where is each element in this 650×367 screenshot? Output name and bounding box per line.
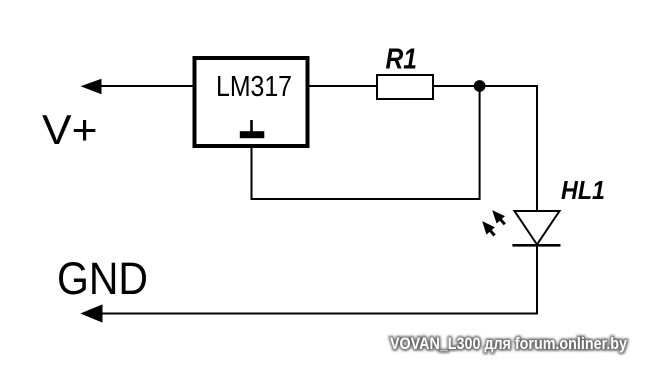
- svg-text:V+: V+: [42, 106, 98, 153]
- wire corner down to LED: [536, 85, 538, 212]
- node junction dot: [474, 80, 486, 92]
- wire feedback up to node: [479, 86, 481, 200]
- GND arrowhead: [80, 304, 102, 322]
- wire V+ input rail: [99, 85, 194, 87]
- svg-text:R1: R1: [386, 44, 418, 76]
- svg-text:VOVAN_L300 для forum.onliner.b: VOVAN_L300 для forum.onliner.by: [390, 335, 628, 353]
- resistor R1: [377, 75, 433, 99]
- wire feedback bottom: [251, 198, 480, 200]
- LM317 adj pin tab symbol: [240, 120, 264, 138]
- LED emission arrow 1: [488, 206, 509, 228]
- svg-text:HL1: HL1: [561, 175, 605, 205]
- wire resistor to corner: [433, 85, 537, 87]
- svg-text:LM317: LM317: [216, 71, 292, 103]
- V+ arrowhead: [81, 79, 102, 94]
- LED emission arrow 2: [478, 217, 499, 239]
- wire LM317 output to resistor: [310, 85, 378, 87]
- wire LED cathode down: [536, 245, 538, 314]
- wire LM317 adj pin down: [251, 146, 253, 200]
- LED HL1 cathode bar: [512, 244, 560, 247]
- LED HL1 triangle anode: [515, 211, 560, 245]
- svg-text:GND: GND: [57, 253, 148, 304]
- regulator U1 LM317 body: [195, 58, 308, 146]
- wire GND rail: [100, 313, 538, 315]
